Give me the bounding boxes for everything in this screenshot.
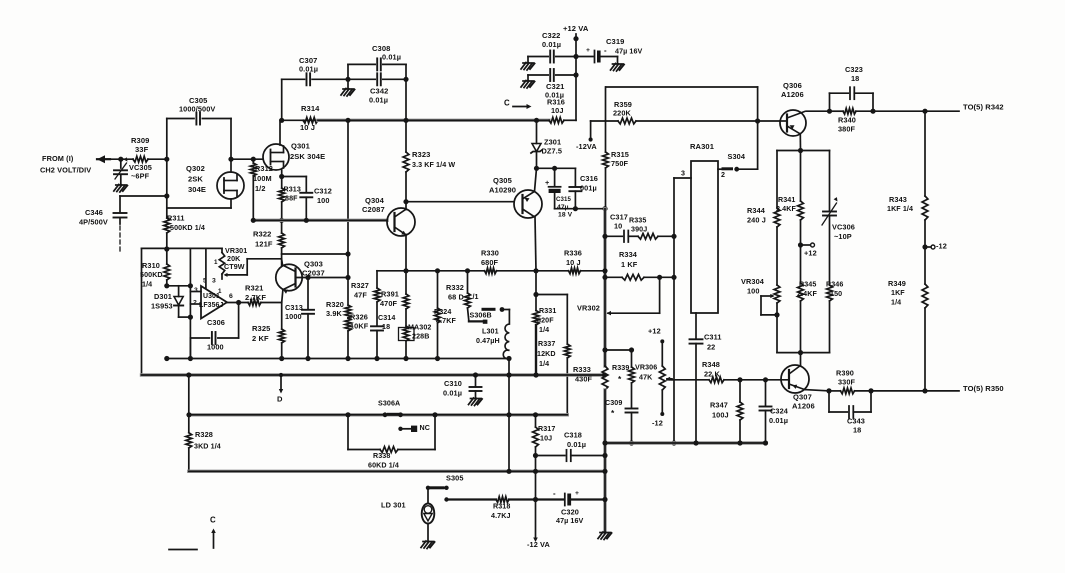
- junction dot: [922, 109, 927, 114]
- svg-text:C314: C314: [378, 314, 395, 322]
- transistor Q302: [217, 172, 244, 199]
- svg-text:R321: R321: [245, 284, 263, 293]
- junction dot: [164, 356, 169, 361]
- svg-text:R315: R315: [611, 150, 629, 159]
- junction dot: [228, 157, 233, 162]
- ground below C319: [611, 64, 625, 72]
- junction dot: [827, 109, 832, 114]
- resistor R316: [547, 97, 565, 123]
- svg-text:1000: 1000: [285, 312, 302, 321]
- junction dot: [573, 54, 578, 59]
- junction dot: [798, 148, 803, 153]
- junction dot: [345, 118, 350, 123]
- varistor MA302: [403, 326, 409, 341]
- junction dot: [602, 206, 607, 211]
- junction dot: [533, 453, 538, 458]
- svg-text:4.7KF: 4.7KF: [436, 317, 456, 325]
- ground left of C321: [521, 81, 535, 89]
- svg-text:R346: R346: [826, 281, 843, 289]
- wire bus C: [605, 441, 766, 444]
- svg-text:R391: R391: [381, 289, 399, 298]
- svg-text:R348: R348: [702, 360, 720, 369]
- junction dot: [671, 234, 676, 239]
- wire to C312: [282, 176, 307, 178]
- svg-text:C346: C346: [85, 208, 103, 217]
- resistor R314: [281, 104, 320, 132]
- junction dot: [164, 193, 169, 198]
- wire R348 to base: [724, 379, 789, 381]
- wire emitter row: [777, 150, 830, 152]
- svg-text:Q306: Q306: [783, 81, 802, 90]
- svg-text:6: 6: [229, 293, 233, 300]
- junction dot: [251, 157, 256, 162]
- svg-text:18: 18: [382, 323, 390, 331]
- wire RA301 pin2: [718, 168, 723, 170]
- junction dot: [506, 469, 511, 474]
- svg-text:R327: R327: [351, 281, 369, 290]
- resistor R331: [535, 295, 537, 311]
- wire upper feedback line: [606, 86, 758, 88]
- svg-text:0.01µ: 0.01µ: [299, 64, 318, 73]
- junction dot: [279, 356, 284, 361]
- resistor R336: [564, 248, 582, 273]
- svg-text:1/4: 1/4: [539, 326, 549, 334]
- svg-text:*: *: [618, 374, 622, 384]
- capacitor C317: [605, 235, 622, 237]
- resistor R309: [131, 136, 149, 162]
- svg-text:500KD 1/4: 500KD 1/4: [170, 224, 205, 232]
- svg-text:100: 100: [317, 196, 330, 205]
- wire right vertical to S304: [757, 87, 759, 169]
- junction dot: [671, 440, 676, 445]
- svg-text:18 V: 18 V: [558, 211, 573, 218]
- svg-text:390J: 390J: [631, 226, 647, 234]
- capacitor C316: [574, 168, 576, 186]
- junction dot: [602, 440, 607, 445]
- junction dot: [465, 268, 470, 273]
- svg-text:330F: 330F: [838, 377, 856, 386]
- wire Q306 base: [780, 120, 787, 122]
- capacitor C314: [371, 325, 383, 327]
- wire C322 right: [556, 56, 576, 58]
- potentiometer VR302 wiper: [607, 311, 612, 316]
- svg-text:C311: C311: [704, 332, 722, 341]
- junction dot: [345, 275, 350, 280]
- svg-text:2: 2: [721, 171, 725, 179]
- svg-text:R344: R344: [747, 206, 766, 215]
- wire from top bus down: [347, 120, 349, 254]
- junction dot: [305, 275, 310, 280]
- svg-text:RA301: RA301: [690, 142, 714, 151]
- svg-text:L301: L301: [482, 328, 499, 336]
- svg-text:-: -: [604, 46, 607, 55]
- wire main row 2: [497, 270, 569, 272]
- label TO(5) R350: [963, 384, 1004, 393]
- svg-text:VR306: VR306: [635, 364, 657, 372]
- wire R331 top: [535, 271, 537, 295]
- svg-text:+: +: [545, 178, 549, 187]
- resistor R334: [605, 250, 674, 280]
- svg-text:12KD: 12KD: [537, 350, 556, 358]
- svg-text:A1206: A1206: [781, 90, 804, 99]
- svg-text:FROM (I): FROM (I): [42, 154, 74, 163]
- junction dot: [870, 109, 875, 114]
- wire Q307 out: [829, 390, 841, 392]
- svg-text:0.01µ: 0.01µ: [382, 52, 401, 61]
- wire main mid vertical: [603, 209, 606, 366]
- resistor R348: [709, 377, 724, 383]
- junction dot: [755, 118, 760, 123]
- resistor R345: [800, 245, 802, 283]
- wire down to top bus: [405, 79, 407, 120]
- capacitor C343 loop: [828, 391, 830, 412]
- variable capacitor VC305: [120, 159, 122, 168]
- wire bottom of bias column: [777, 352, 830, 354]
- label TO(5) R342: [963, 103, 1004, 112]
- transistor Q304: [387, 208, 415, 236]
- junction dot: [533, 292, 538, 297]
- wire C308 top left: [348, 63, 375, 65]
- resistor R337: [566, 295, 568, 345]
- resistor R312: [250, 159, 273, 220]
- junction dot: [602, 469, 607, 474]
- svg-text:100: 100: [747, 286, 760, 295]
- svg-text:C319: C319: [606, 37, 624, 46]
- svg-text:Q305: Q305: [493, 176, 512, 185]
- svg-text:R312: R312: [255, 164, 273, 173]
- capacitor C324: [765, 380, 767, 406]
- wire D301 bottom: [179, 316, 191, 318]
- junction dot: [533, 412, 538, 417]
- svg-text:4P/500V: 4P/500V: [79, 217, 108, 226]
- svg-text:R334: R334: [619, 250, 638, 259]
- svg-text:220K: 220K: [613, 108, 632, 117]
- variable capacitor VC306: [829, 151, 831, 211]
- svg-text:18: 18: [851, 74, 859, 83]
- svg-text:3: 3: [212, 278, 216, 285]
- resistor R346: [827, 285, 833, 301]
- transistor Q301: [263, 144, 289, 170]
- junction dot: [345, 356, 350, 361]
- svg-text:1KF 1/4: 1KF 1/4: [887, 205, 913, 213]
- wire Q301 drain up: [279, 120, 281, 145]
- wire C322 gnd stub: [527, 57, 529, 63]
- svg-text:R338: R338: [373, 452, 390, 460]
- svg-text:R340: R340: [838, 115, 856, 124]
- capacitor C305: [179, 96, 215, 125]
- resistor R335: [638, 233, 658, 239]
- svg-text:DZ7.5: DZ7.5: [542, 146, 563, 155]
- transistor Q305: [514, 190, 542, 218]
- svg-text:1000: 1000: [207, 342, 224, 351]
- svg-text:CT9W: CT9W: [224, 263, 245, 271]
- svg-text:TO(5) R350: TO(5) R350: [963, 384, 1004, 393]
- junction dot: [533, 268, 538, 273]
- svg-text:-: -: [553, 489, 556, 498]
- svg-text:-12VA: -12VA: [576, 142, 597, 151]
- svg-text:47F: 47F: [354, 290, 367, 299]
- wire C321 right: [556, 74, 576, 76]
- wire output2 to edge: [855, 390, 960, 392]
- junction dot R318 start: [444, 497, 448, 501]
- svg-text:47µ: 47µ: [557, 204, 569, 211]
- svg-text:0.01µ: 0.01µ: [769, 416, 788, 425]
- svg-text:~6PF: ~6PF: [131, 171, 150, 180]
- junction dot: [602, 372, 607, 377]
- svg-text:10 J: 10 J: [566, 258, 581, 267]
- svg-text:C306: C306: [207, 318, 225, 327]
- resistor R310: [140, 249, 170, 289]
- wire L301 bottom vertical: [508, 359, 510, 472]
- wire C322 left: [528, 56, 548, 58]
- junction dot: [693, 440, 698, 445]
- capacitor C318: [536, 455, 565, 457]
- resistor R327: [374, 288, 380, 302]
- lamp LD301: [427, 488, 429, 504]
- svg-text:2.7KF: 2.7KF: [245, 293, 266, 302]
- wire to bottom bus: [189, 338, 191, 359]
- junction dot: [629, 347, 634, 352]
- wire Q305 emitter down: [535, 217, 536, 271]
- svg-text:47K: 47K: [639, 374, 653, 382]
- resistor R340: [830, 108, 874, 133]
- svg-text:1/4: 1/4: [142, 281, 152, 289]
- junction dot: [403, 199, 408, 204]
- resistor R322: [253, 220, 285, 258]
- potentiometer VR304: [774, 285, 780, 303]
- junction dot: [573, 36, 578, 41]
- svg-text:Q301: Q301: [291, 142, 310, 151]
- junction dot: [868, 388, 873, 393]
- svg-text:500KD: 500KD: [140, 271, 163, 279]
- svg-text:1/2: 1/2: [255, 184, 266, 193]
- resistor R315: [603, 87, 629, 209]
- svg-text:10KF: 10KF: [350, 321, 369, 330]
- ground bottom of mid vertical: [598, 532, 612, 540]
- svg-text:NC: NC: [420, 424, 431, 432]
- wire down: [535, 456, 537, 472]
- junction dot: [533, 497, 538, 502]
- svg-text:VR302: VR302: [577, 303, 600, 312]
- svg-text:+: +: [575, 490, 579, 497]
- wire Q302 source down: [230, 199, 232, 208]
- svg-text:0.47µH: 0.47µH: [476, 337, 500, 345]
- capacitor C309: [626, 408, 638, 410]
- wire left rail down: [141, 248, 143, 375]
- capacitor C320 (electrolytic): [509, 498, 563, 500]
- svg-text:S304: S304: [728, 152, 746, 161]
- junction dot: [602, 275, 607, 280]
- junction dot: [573, 72, 578, 77]
- svg-text:C: C: [210, 515, 216, 524]
- switch S305: [426, 486, 430, 490]
- svg-text:C342: C342: [370, 87, 388, 96]
- input arrow: [97, 155, 105, 163]
- junction dot: [534, 166, 539, 171]
- svg-text:D: D: [277, 395, 283, 404]
- wire op-amp pin2 stub: [190, 303, 201, 305]
- transistor Q307: [781, 365, 809, 393]
- resistor R326: [345, 312, 369, 358]
- svg-text:R347: R347: [710, 400, 728, 409]
- resistor R333: [573, 365, 608, 390]
- resistor R332: [467, 271, 469, 293]
- wire to C307: [282, 78, 305, 80]
- svg-text:240 J: 240 J: [747, 215, 766, 224]
- junction dot: [602, 268, 607, 273]
- wire Q306 collector out: [806, 110, 830, 112]
- capacitor C322: [542, 31, 561, 63]
- wire C305 to Q302 drain: [230, 119, 232, 173]
- svg-text:10J: 10J: [540, 435, 552, 443]
- junction dot: [602, 453, 607, 458]
- wire upper link over Q303: [282, 253, 348, 255]
- svg-text:2SK: 2SK: [188, 175, 203, 184]
- inductor L301: [503, 324, 509, 359]
- wire op-amp output: [227, 302, 248, 304]
- svg-text:R313: R313: [284, 186, 301, 194]
- svg-text:C2037: C2037: [302, 269, 325, 278]
- resistor R323: [403, 120, 455, 201]
- wire to R337: [536, 294, 567, 296]
- svg-text:2.4KF: 2.4KF: [776, 205, 796, 213]
- transistor Q306: [780, 110, 806, 136]
- wire bus B: [142, 373, 605, 376]
- svg-text:CH2 VOLT/DIV: CH2 VOLT/DIV: [40, 165, 91, 174]
- ground left of C322: [521, 63, 535, 71]
- wire Q302 node to Q301 gate: [231, 158, 263, 160]
- wire RA301 pin3 vertical: [673, 178, 675, 443]
- svg-text:+12: +12: [648, 326, 661, 335]
- junction dot: [164, 157, 169, 162]
- wire R327 top: [376, 271, 378, 288]
- svg-text:*: *: [611, 408, 615, 418]
- svg-text:R310: R310: [142, 261, 160, 270]
- svg-text:100J: 100J: [712, 410, 729, 419]
- wire Q304 collector: [405, 202, 407, 210]
- svg-text:VR301: VR301: [225, 247, 247, 255]
- wire: [105, 158, 133, 160]
- svg-text:R314: R314: [301, 104, 320, 113]
- wire main mid vertical lower: [603, 390, 606, 532]
- resistor R321: [245, 284, 266, 306]
- svg-text:R317: R317: [538, 425, 555, 433]
- supply +12 tap: [801, 244, 811, 246]
- resistor R318: [447, 498, 496, 500]
- svg-text:3: 3: [681, 170, 685, 178]
- resistor R313: [279, 177, 301, 221]
- junction dot: [188, 283, 193, 288]
- svg-text:~10P: ~10P: [834, 232, 852, 241]
- wire C342 right: [383, 78, 406, 80]
- svg-text:22: 22: [707, 342, 715, 351]
- wire bus E: [189, 470, 605, 473]
- svg-text:LF356J: LF356J: [199, 302, 224, 309]
- svg-text:20K: 20K: [227, 255, 241, 263]
- resistor R324: [434, 271, 456, 359]
- junction dot: [671, 275, 676, 280]
- svg-text:-12 VA: -12 VA: [527, 540, 551, 549]
- svg-text:C316: C316: [580, 174, 598, 183]
- wire Q306 emitter down: [799, 134, 801, 151]
- junction dot: [506, 356, 511, 361]
- potentiometer VR301: [221, 248, 223, 252]
- resistor R349: [888, 247, 928, 391]
- junction dot: [374, 356, 379, 361]
- wire bus A: [167, 358, 509, 360]
- svg-text:Q304: Q304: [365, 196, 385, 205]
- diode D301: [178, 286, 180, 297]
- svg-text:10J: 10J: [551, 106, 564, 115]
- contact NC: [398, 427, 402, 431]
- svg-text:Q303: Q303: [304, 260, 323, 269]
- junction dot: [602, 497, 607, 502]
- wire Q304 emitter: [405, 235, 407, 271]
- resistor R320: [326, 254, 351, 318]
- wire Q305 collector up: [535, 168, 537, 191]
- junction dot: [279, 174, 284, 179]
- junction dot: [188, 356, 193, 361]
- svg-text:R337: R337: [538, 340, 555, 348]
- wire middle bus: [253, 219, 387, 222]
- svg-text:LD 301: LD 301: [381, 500, 406, 509]
- svg-text:R345: R345: [799, 281, 816, 289]
- svg-text:47µ 16V: 47µ 16V: [556, 517, 584, 525]
- svg-text:820F: 820F: [537, 317, 554, 325]
- resistor R344: [747, 151, 780, 286]
- svg-text:R341: R341: [778, 196, 795, 204]
- resistor R359: [591, 100, 780, 124]
- svg-text:TO(5) R342: TO(5) R342: [963, 103, 1004, 112]
- resistor R341: [800, 151, 802, 202]
- wire C321 left: [528, 74, 548, 76]
- svg-text:68 D: 68 D: [448, 292, 464, 301]
- svg-text:2: 2: [193, 300, 197, 307]
- capacitor C312: [305, 177, 307, 192]
- svg-text:C324: C324: [770, 406, 789, 415]
- svg-text:C320: C320: [561, 507, 579, 516]
- svg-text:R325: R325: [252, 324, 270, 333]
- junction dot: [304, 218, 309, 223]
- svg-text:1/4: 1/4: [539, 360, 549, 368]
- capacitor C323 loop: [829, 93, 831, 111]
- wire VR301 wiper to R322 node: [247, 258, 281, 260]
- node D: [279, 373, 283, 377]
- transistor Q303: [276, 264, 302, 290]
- wire C321 gnd stub: [527, 75, 529, 80]
- svg-text:+12 VA: +12 VA: [563, 24, 589, 33]
- svg-text:1/4: 1/4: [891, 299, 901, 307]
- supply -12VA: [590, 121, 592, 138]
- switch S306A: [383, 412, 388, 417]
- svg-text:100M: 100M: [253, 174, 272, 183]
- wire op-amp top rail: [142, 247, 223, 249]
- svg-text:Q302: Q302: [186, 164, 205, 173]
- svg-text:121F: 121F: [255, 240, 273, 249]
- svg-text:1000/500V: 1000/500V: [179, 104, 215, 113]
- shield dash line below C346: [119, 226, 121, 252]
- resistor R338: [348, 449, 380, 451]
- resistor R347: [710, 380, 743, 443]
- svg-text:C318: C318: [564, 430, 582, 439]
- svg-text:MA302: MA302: [408, 324, 431, 332]
- svg-text:18: 18: [853, 425, 861, 434]
- svg-text:R331: R331: [539, 307, 556, 315]
- svg-text:33F: 33F: [135, 145, 149, 154]
- junction dot: [798, 350, 803, 355]
- supply -12 tap: [925, 246, 931, 248]
- svg-text:304E: 304E: [188, 185, 206, 194]
